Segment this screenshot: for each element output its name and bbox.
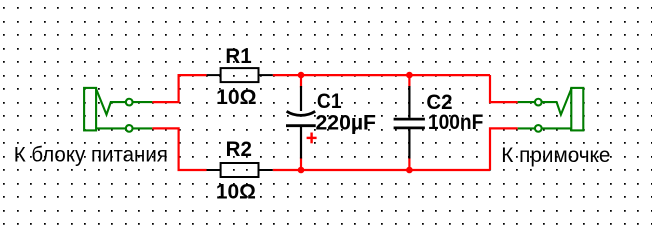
svg-text:10Ω: 10Ω — [216, 86, 256, 109]
svg-text:220µF: 220µF — [316, 111, 377, 134]
svg-text:К блоку питания: К блоку питания — [14, 144, 168, 167]
svg-text:К примочке: К примочке — [501, 144, 610, 167]
svg-text:100nF: 100nF — [428, 111, 484, 134]
svg-text:10Ω: 10Ω — [216, 180, 256, 203]
svg-text:R1: R1 — [225, 45, 252, 68]
svg-text:R2: R2 — [226, 138, 252, 161]
svg-text:C1: C1 — [317, 90, 342, 113]
